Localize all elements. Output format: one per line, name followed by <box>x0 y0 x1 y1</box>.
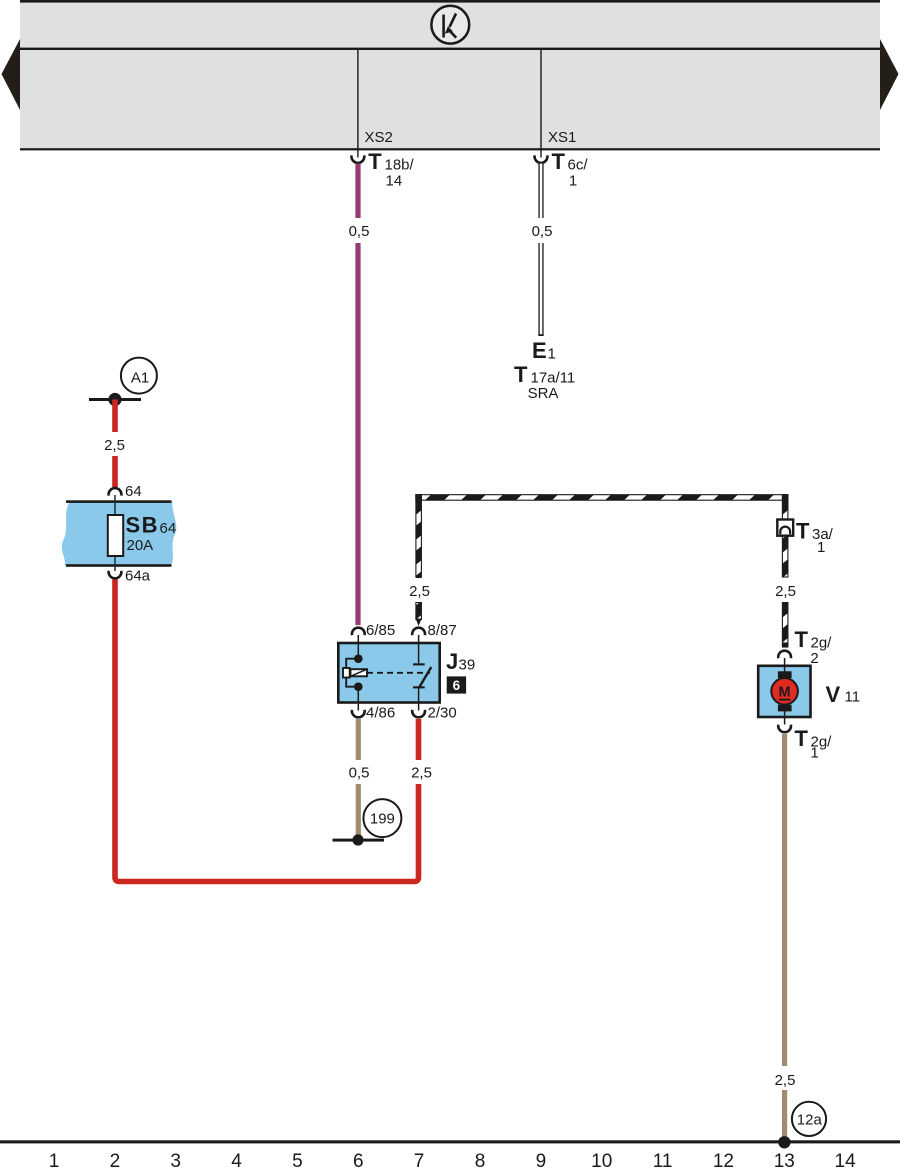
svg-text:64: 64 <box>160 520 177 537</box>
bottom rail line <box>0 1140 900 1143</box>
connector T6c/1 cup <box>535 155 548 163</box>
svg-text:1: 1 <box>548 346 556 363</box>
svg-text:J: J <box>446 649 458 674</box>
relay terminal 2/30 cup <box>412 710 425 718</box>
svg-text:V: V <box>826 682 841 707</box>
svg-text:7: 7 <box>414 1151 425 1168</box>
relay J39 terminal 8/87 cup <box>412 628 425 636</box>
svg-text:11: 11 <box>653 1151 673 1168</box>
label T2g/1 <box>795 726 833 762</box>
svg-text:64a: 64a <box>125 568 151 585</box>
wire hatched relay 8/87 to V11 <box>415 494 788 647</box>
svg-text:6/85: 6/85 <box>366 622 395 639</box>
label black box 6 <box>447 676 466 693</box>
wire label 2,5 red bottom <box>407 760 436 784</box>
wire label 2,5 hatch left <box>405 578 434 602</box>
svg-text:4: 4 <box>231 1151 242 1168</box>
svg-text:2g/: 2g/ <box>811 634 833 651</box>
node XS1 bus pin <box>541 50 576 158</box>
svg-text:2,5: 2,5 <box>411 765 432 782</box>
wire label 0,5 tan <box>345 760 374 784</box>
svg-text:4/86: 4/86 <box>366 704 395 721</box>
svg-text:12: 12 <box>713 1151 734 1168</box>
bus bar gray band <box>20 0 880 150</box>
connector T2g/1 cup <box>778 725 791 733</box>
label V11 <box>826 682 861 707</box>
svg-text:9: 9 <box>536 1151 547 1168</box>
label E1 T17a/11 SRA <box>514 338 575 402</box>
svg-text:XS2: XS2 <box>365 129 393 146</box>
svg-text:T: T <box>796 518 810 543</box>
svg-text:6: 6 <box>353 1151 364 1168</box>
svg-text:SB: SB <box>126 513 160 538</box>
connector T18b/14 cup <box>352 155 365 163</box>
svg-text:2,5: 2,5 <box>409 583 430 600</box>
svg-text:1: 1 <box>49 1151 60 1168</box>
svg-text:14: 14 <box>835 1151 857 1168</box>
track numbers <box>49 1151 856 1168</box>
svg-text:T: T <box>514 362 528 387</box>
svg-text:1: 1 <box>817 539 825 556</box>
bottom rail junction dot <box>778 1136 790 1148</box>
wire label 2,5 red top <box>100 432 129 456</box>
left bus arrow <box>2 39 21 110</box>
svg-text:12a: 12a <box>797 1111 823 1128</box>
relay coil junction dots <box>354 654 363 663</box>
relay J39 box <box>338 643 439 703</box>
label SB64 20A <box>126 513 177 554</box>
svg-text:64: 64 <box>125 483 142 500</box>
wire white XS1 to E1 <box>538 164 543 336</box>
node A1 <box>121 358 157 394</box>
svg-text:2,5: 2,5 <box>775 1072 796 1089</box>
label T18b/14 <box>368 149 414 189</box>
svg-text:1: 1 <box>810 745 818 762</box>
svg-text:20A: 20A <box>127 537 154 554</box>
label T6c/1 <box>552 149 589 189</box>
label J39 <box>446 649 475 674</box>
right bus arrow <box>880 39 899 110</box>
fuse SB64 box <box>62 495 177 571</box>
svg-text:11: 11 <box>845 689 861 706</box>
svg-text:5: 5 <box>292 1151 303 1168</box>
terminal 64 cup <box>109 488 122 496</box>
relay coil <box>343 668 367 678</box>
svg-text:SRA: SRA <box>528 385 559 402</box>
relay switch <box>413 635 431 711</box>
svg-text:8: 8 <box>475 1151 486 1168</box>
relay terminal 4/86 cup <box>352 710 365 718</box>
motor V11 box <box>758 658 810 725</box>
relay J39 terminal 6/85 cup <box>352 628 365 636</box>
wire red A1 to fuse <box>112 400 118 488</box>
svg-text:T: T <box>795 726 809 751</box>
svg-text:1: 1 <box>569 172 577 189</box>
svg-text:0,5: 0,5 <box>349 223 370 240</box>
svg-text:8/87: 8/87 <box>428 622 457 639</box>
wire purple XS2 to relay 6/85 <box>355 164 360 625</box>
svg-text:2: 2 <box>110 1151 121 1168</box>
svg-text:M: M <box>779 685 791 701</box>
relay left pin <box>357 635 359 659</box>
svg-text:2: 2 <box>810 650 818 667</box>
svg-text:2/30: 2/30 <box>428 704 457 721</box>
svg-text:T: T <box>368 149 382 174</box>
node 12a <box>792 1102 826 1136</box>
svg-text:T: T <box>795 627 809 652</box>
svg-text:0,5: 0,5 <box>532 223 553 240</box>
wire label 0,5 white <box>527 218 556 243</box>
svg-text:0,5: 0,5 <box>349 765 370 782</box>
svg-text:T: T <box>552 149 566 174</box>
svg-text:2,5: 2,5 <box>775 583 796 600</box>
relay dashed actuator line <box>367 672 430 674</box>
svg-text:A1: A1 <box>131 369 149 386</box>
circle K symbol <box>431 6 469 44</box>
label T3a/1 <box>796 518 834 556</box>
svg-text:3: 3 <box>170 1151 181 1168</box>
connector T3a/1 square <box>777 520 793 536</box>
wire label 2,5 tan bottom <box>771 1066 800 1090</box>
svg-text:13: 13 <box>774 1151 795 1168</box>
relay coil bracket <box>346 659 358 687</box>
svg-text:18b/: 18b/ <box>385 157 415 174</box>
wire tan relay 4/86 to ground 199 <box>356 719 361 837</box>
node A1 junction dot and bar <box>89 393 141 406</box>
svg-text:10: 10 <box>591 1151 612 1168</box>
terminal 64a cup <box>109 571 122 579</box>
svg-text:6c/: 6c/ <box>568 157 589 174</box>
svg-text:199: 199 <box>370 810 395 827</box>
node XS2 bus pin <box>358 50 393 158</box>
connector T2g/2 cup <box>778 651 791 659</box>
wire tan V11 to track 13 <box>782 734 787 1142</box>
svg-text:2,5: 2,5 <box>104 437 125 454</box>
wire red fuse to relay 2/30 <box>115 580 419 882</box>
wire label 0,5 purple <box>344 218 373 243</box>
svg-text:39: 39 <box>459 656 476 673</box>
svg-text:E: E <box>532 338 547 363</box>
wire label 2,5 hatch right <box>771 578 800 602</box>
svg-text:XS1: XS1 <box>548 129 576 146</box>
ground node 199 <box>333 799 402 846</box>
label T2g/2 <box>795 627 833 667</box>
svg-text:14: 14 <box>386 172 403 189</box>
svg-text:6: 6 <box>453 678 461 693</box>
